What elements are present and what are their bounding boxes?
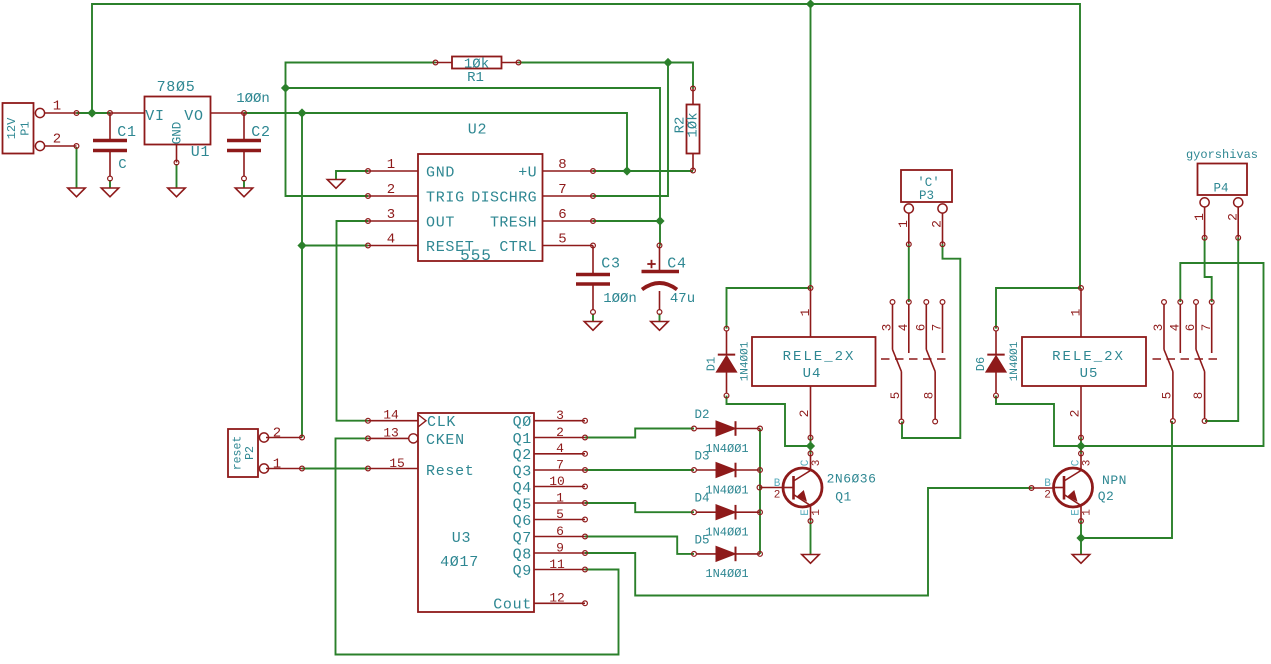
svg-text:P1: P1 (18, 121, 32, 135)
svg-text:DISCHRG: DISCHRG (471, 189, 537, 206)
svg-text:Q3: Q3 (513, 463, 532, 480)
svg-text:U5: U5 (1080, 366, 1099, 382)
svg-text:9: 9 (556, 540, 564, 555)
svg-text:D5: D5 (694, 533, 709, 547)
svg-text:Q2: Q2 (513, 447, 532, 464)
svg-text:1: 1 (1192, 213, 1207, 221)
svg-text:Q1: Q1 (513, 431, 532, 448)
svg-text:1: 1 (387, 157, 395, 173)
svg-text:2: 2 (1068, 410, 1083, 418)
svg-text:TRIG: TRIG (426, 189, 465, 206)
svg-text:CLK: CLK (427, 414, 456, 431)
svg-text:15: 15 (389, 456, 405, 471)
svg-text:1N4ØØ1: 1N4ØØ1 (705, 442, 748, 456)
svg-text:D2: D2 (694, 408, 709, 422)
svg-text:4: 4 (387, 232, 395, 248)
svg-text:3: 3 (1081, 460, 1093, 467)
svg-text:2: 2 (797, 410, 812, 418)
svg-text:1N4ØØ1: 1N4ØØ1 (705, 483, 748, 497)
svg-text:2: 2 (387, 182, 395, 198)
svg-text:1: 1 (1069, 308, 1084, 316)
svg-text:1ØØn: 1ØØn (603, 291, 637, 307)
svg-text:Q8: Q8 (513, 546, 532, 563)
svg-text:D1: D1 (704, 357, 718, 371)
svg-text:Cout: Cout (493, 597, 532, 614)
svg-text:2: 2 (53, 132, 61, 148)
svg-text:7: 7 (931, 324, 945, 332)
svg-text:3: 3 (1152, 324, 1166, 332)
svg-text:1N4ØØ1: 1N4ØØ1 (1009, 341, 1021, 381)
svg-text:14: 14 (383, 408, 399, 423)
svg-text:D3: D3 (694, 450, 709, 464)
svg-text:CKEN: CKEN (426, 432, 465, 449)
svg-text:QØ: QØ (513, 414, 532, 431)
svg-text:Q2: Q2 (1098, 489, 1115, 504)
svg-text:4: 4 (556, 441, 564, 456)
svg-text:2: 2 (930, 220, 945, 228)
svg-text:Q7: Q7 (513, 530, 532, 547)
svg-text:Q4: Q4 (513, 480, 532, 497)
svg-text:GND: GND (426, 164, 455, 181)
svg-text:Reset: Reset (426, 463, 475, 480)
svg-text:1: 1 (556, 490, 564, 505)
svg-text:RELE_2X: RELE_2X (1052, 349, 1125, 365)
svg-text:1: 1 (53, 99, 61, 115)
svg-text:2: 2 (1226, 213, 1241, 221)
svg-text:78Ø5: 78Ø5 (157, 79, 196, 96)
svg-text:NPN: NPN (1102, 473, 1127, 488)
svg-text:1: 1 (798, 308, 813, 316)
svg-text:C2: C2 (251, 124, 270, 141)
svg-text:1N4ØØ1: 1N4ØØ1 (705, 567, 748, 581)
svg-text:2N6Ø36: 2N6Ø36 (827, 472, 877, 487)
svg-text:555: 555 (460, 247, 492, 265)
svg-text:8: 8 (558, 157, 566, 173)
svg-text:7: 7 (556, 457, 564, 472)
svg-text:'C': 'C' (917, 176, 940, 190)
svg-text:VO: VO (184, 108, 203, 125)
svg-text:C: C (118, 157, 126, 173)
svg-text:13: 13 (383, 425, 399, 440)
svg-text:RELE_2X: RELE_2X (783, 349, 856, 365)
svg-text:3: 3 (811, 460, 823, 467)
svg-text:5: 5 (1160, 392, 1174, 400)
svg-text:6: 6 (915, 324, 929, 332)
svg-text:3: 3 (556, 408, 564, 423)
svg-text:12V: 12V (5, 117, 19, 139)
svg-text:P4: P4 (1213, 182, 1228, 196)
svg-text:C4: C4 (667, 255, 686, 272)
svg-text:10: 10 (549, 474, 565, 489)
svg-text:TRESH: TRESH (490, 214, 537, 231)
svg-text:C1: C1 (117, 124, 136, 141)
svg-text:Q1: Q1 (835, 490, 852, 505)
svg-text:1: 1 (273, 457, 281, 473)
svg-text:U3: U3 (452, 530, 471, 547)
svg-text:6: 6 (1184, 324, 1198, 332)
svg-text:Q5: Q5 (513, 496, 532, 513)
svg-text:4: 4 (1169, 324, 1183, 332)
svg-text:1Øk: 1Øk (686, 112, 702, 137)
svg-text:CTRL: CTRL (499, 239, 537, 256)
svg-text:3: 3 (387, 207, 395, 223)
svg-text:6: 6 (558, 207, 566, 223)
svg-text:reset: reset (232, 436, 245, 471)
svg-text:3: 3 (881, 324, 895, 332)
svg-text:8: 8 (923, 392, 937, 400)
svg-text:B: B (1044, 478, 1051, 490)
svg-text:R1: R1 (467, 70, 484, 86)
svg-text:U1: U1 (191, 144, 210, 161)
svg-text:+U: +U (518, 164, 537, 181)
svg-text:1N4ØØ1: 1N4ØØ1 (739, 341, 751, 381)
svg-text:1N4ØØ1: 1N4ØØ1 (705, 526, 748, 540)
svg-text:12: 12 (549, 591, 565, 606)
svg-text:P2: P2 (244, 446, 257, 460)
svg-text:1: 1 (896, 220, 911, 228)
svg-text:D6: D6 (974, 357, 988, 371)
svg-text:1: 1 (1081, 509, 1093, 516)
svg-text:11: 11 (549, 557, 565, 572)
svg-text:D4: D4 (694, 492, 709, 506)
svg-text:8: 8 (1192, 392, 1206, 400)
svg-text:5: 5 (556, 507, 564, 522)
svg-text:B: B (774, 478, 781, 490)
svg-text:6: 6 (556, 524, 564, 539)
svg-text:7: 7 (558, 182, 566, 198)
svg-text:Q9: Q9 (513, 563, 532, 580)
svg-text:4Ø17: 4Ø17 (440, 554, 479, 571)
svg-text:5: 5 (558, 232, 566, 248)
svg-text:7: 7 (1200, 324, 1214, 332)
svg-text:GND: GND (171, 122, 185, 145)
svg-text:1ØØn: 1ØØn (236, 91, 270, 107)
svg-text:U4: U4 (803, 366, 822, 382)
svg-text:gyorshivas: gyorshivas (1186, 148, 1258, 162)
svg-text:47u: 47u (670, 291, 695, 307)
svg-text:4: 4 (897, 324, 911, 332)
svg-text:1: 1 (811, 509, 823, 516)
svg-text:5: 5 (889, 392, 903, 400)
svg-text:C3: C3 (601, 255, 620, 272)
svg-text:2: 2 (774, 489, 781, 501)
svg-text:OUT: OUT (426, 214, 455, 231)
svg-text:2: 2 (556, 425, 564, 440)
svg-text:U2: U2 (468, 121, 487, 138)
svg-text:P3: P3 (919, 189, 934, 203)
svg-text:2: 2 (1044, 489, 1051, 501)
svg-text:VI: VI (145, 108, 164, 125)
svg-text:2: 2 (273, 426, 281, 442)
svg-text:Q6: Q6 (513, 513, 532, 530)
